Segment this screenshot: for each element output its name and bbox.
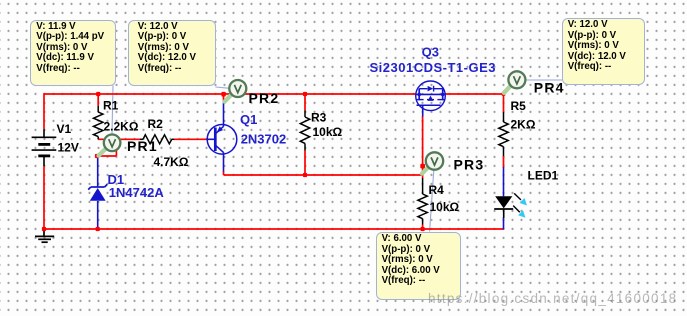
svg-text:Q1: Q1 [240,112,257,127]
svg-text:R2: R2 [148,117,164,131]
svg-text:PR4: PR4 [534,80,565,96]
svg-text:2N3702: 2N3702 [241,132,287,147]
svg-text:R5: R5 [511,99,527,113]
svg-text:R1: R1 [103,99,119,113]
svg-text:R3: R3 [311,111,327,125]
svg-text:4.7KΩ: 4.7KΩ [154,155,189,169]
svg-text:2KΩ: 2KΩ [511,118,536,132]
svg-text:LED1: LED1 [528,169,559,183]
svg-text:R4: R4 [429,183,445,197]
svg-text:Q3: Q3 [422,44,439,59]
svg-text:Si2301CDS-T1-GE3: Si2301CDS-T1-GE3 [370,60,497,75]
svg-text:2.2KΩ: 2.2KΩ [104,120,139,134]
svg-text:10kΩ: 10kΩ [313,125,343,139]
svg-text:1N4742A: 1N4742A [109,185,165,200]
svg-text:PR1: PR1 [127,138,158,154]
svg-text:V1: V1 [57,122,72,136]
svg-text:PR3: PR3 [454,157,485,173]
svg-text:10kΩ: 10kΩ [430,200,460,214]
svg-text:12V: 12V [58,141,79,155]
svg-text:PR2: PR2 [249,90,280,106]
